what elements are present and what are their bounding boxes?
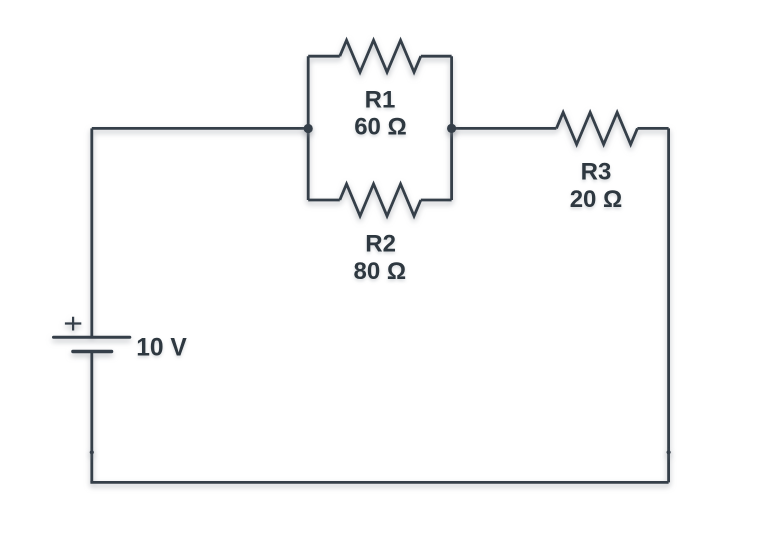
wire top left horizontal <box>92 127 308 130</box>
node B junction dot <box>447 124 456 133</box>
battery V1 positive plate <box>54 336 130 339</box>
node A junction dot <box>304 124 313 133</box>
svg-text:10 V: 10 V <box>136 334 187 361</box>
resistor R1 <box>340 40 421 72</box>
wire joint left vertical <box>90 450 94 454</box>
svg-text:R1: R1 <box>365 87 396 114</box>
svg-text:R3: R3 <box>581 159 612 186</box>
wire top branch right stub <box>421 55 452 58</box>
wire left vertical upper (battery + to top-left corner) <box>90 128 93 337</box>
wire top branch left stub <box>308 55 340 58</box>
svg-text:R2: R2 <box>365 231 396 258</box>
resistor R3 <box>556 112 637 144</box>
wire right vertical <box>667 128 670 482</box>
wire bottom branch right stub <box>421 199 452 202</box>
svg-text:60 Ω: 60 Ω <box>354 113 407 140</box>
svg-text:80 Ω: 80 Ω <box>353 258 406 285</box>
wire bottom horizontal <box>90 481 668 484</box>
wire left vertical lower (battery - to bottom-left corner) <box>90 352 93 483</box>
wire joint right vertical <box>667 450 671 454</box>
wire bottom branch left stub <box>308 199 340 202</box>
plus sign of battery <box>65 317 81 331</box>
wire parallel-block right rail <box>450 56 453 200</box>
wire middle horizontal (node B to R3) <box>452 127 557 130</box>
wire R3 to top-right corner <box>637 127 668 130</box>
wire parallel-block left rail <box>307 56 310 200</box>
battery V1 negative plate <box>73 350 112 353</box>
resistor R2 <box>340 184 421 216</box>
svg-text:20 Ω: 20 Ω <box>570 186 623 213</box>
